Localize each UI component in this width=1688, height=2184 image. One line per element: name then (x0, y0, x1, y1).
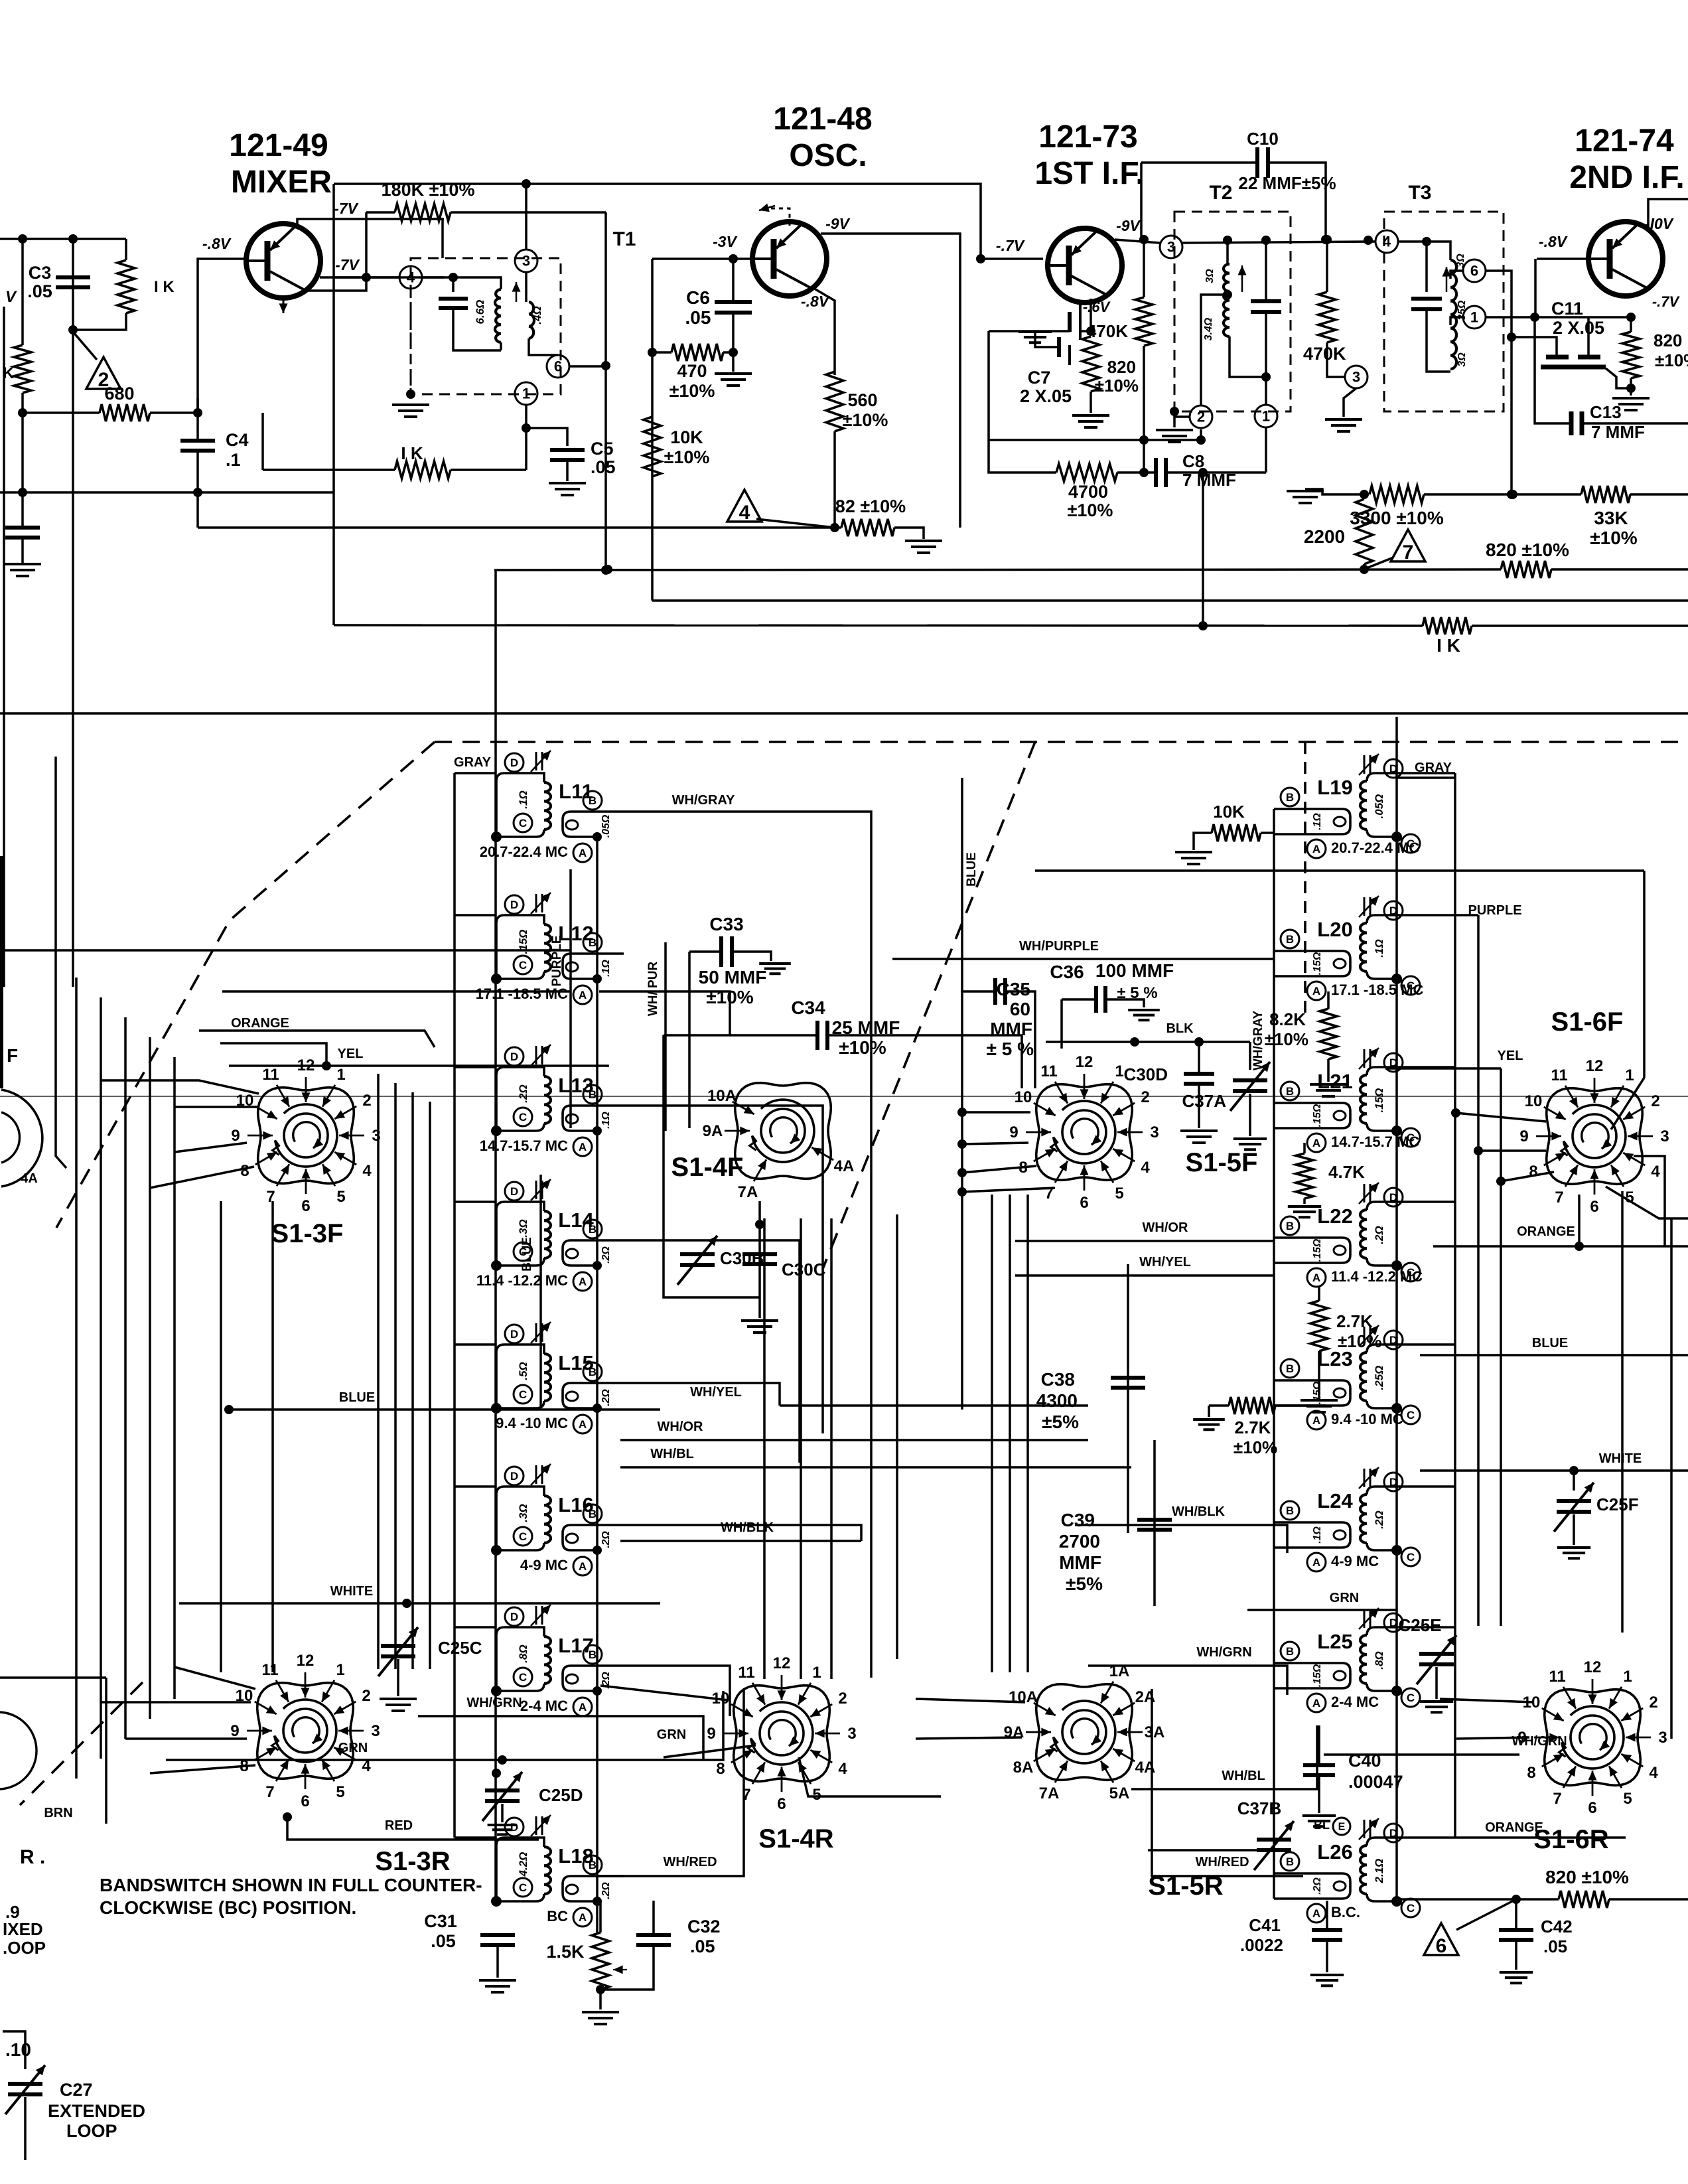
wire c37a gnd (1249, 1094, 1251, 1136)
svg-text:D: D (510, 1185, 518, 1198)
svg-text:WH/RED: WH/RED (663, 1855, 717, 1869)
adjuster L17 (531, 1605, 551, 1626)
label L13 prim ohms (517, 1084, 529, 1102)
terminal B L18 (583, 1856, 602, 1874)
label C10 (1247, 129, 1279, 149)
svg-text:6: 6 (301, 1197, 310, 1215)
capacitor C25F (1554, 1483, 1594, 1532)
junction L11 sec (593, 832, 602, 841)
label L12 freq (476, 985, 569, 1002)
junction (1261, 236, 1271, 245)
note bandswitch 2 (100, 1897, 356, 1918)
svg-text:7 MMF: 7 MMF (1591, 422, 1645, 442)
wire pin1 to 1K (525, 428, 527, 470)
label L14 freq (476, 1272, 568, 1289)
svg-text:WH/GRAY: WH/GRAY (672, 793, 735, 808)
ground C25D (488, 1825, 518, 1834)
svg-text:2: 2 (1197, 409, 1205, 425)
svg-text:S1-6R: S1-6R (1533, 1825, 1608, 1854)
label GRN s14r (657, 1727, 686, 1742)
label L11 freq (480, 843, 568, 860)
ground C41 (1310, 1975, 1344, 1986)
svg-text:7A: 7A (1039, 1784, 1060, 1802)
wire 180K right (451, 211, 606, 214)
resistor 2200 (1356, 499, 1373, 564)
arrow 1.5K tap (613, 1966, 627, 1974)
svg-text:2: 2 (362, 1092, 371, 1110)
capacitor C41 (1312, 1930, 1342, 1940)
junction L17 sec (593, 1686, 602, 1696)
label C3 value (27, 281, 52, 301)
junction (957, 1168, 967, 1177)
svg-text:±10%: ±10% (1095, 376, 1139, 396)
svg-text:WH/YEL: WH/YEL (690, 1385, 742, 1400)
coil L18 secondary (563, 1876, 624, 1901)
wire white left (179, 1602, 660, 1605)
label BLUE left rot (520, 1237, 534, 1272)
label WH/GRAY left (672, 793, 735, 808)
coil T1 secondary (529, 302, 534, 338)
wire C8 right (1166, 471, 1266, 474)
label C41 v (1240, 1935, 1283, 1955)
terminal A L26 (1307, 1904, 1326, 1923)
adjuster L20 (1359, 896, 1379, 917)
svg-text:D: D (510, 1470, 518, 1483)
terminal B L26 (1281, 1852, 1299, 1871)
svg-text:OSC.: OSC. (789, 138, 867, 173)
label EXTENDED (48, 2101, 145, 2121)
wire 1K bottom (73, 313, 126, 330)
ground 1.5K (582, 2012, 619, 2024)
wire rail y858 b (1551, 568, 1688, 571)
label C34 (791, 997, 825, 1018)
svg-text:ORANGE: ORANGE (1517, 1224, 1575, 1239)
label 3 ohm T3b (1456, 352, 1468, 367)
ground C30D (1180, 1131, 1218, 1143)
svg-text:9: 9 (230, 1722, 239, 1740)
capacitor C34 (817, 1021, 827, 1050)
coil L12 primary (496, 915, 551, 979)
svg-text:1: 1 (1262, 408, 1270, 425)
svg-text:.1Ω: .1Ω (1312, 813, 1323, 830)
label WH/RED right (1195, 1855, 1249, 1869)
svg-text:60: 60 (1010, 999, 1030, 1019)
wire 1stIF collector (1140, 163, 1143, 240)
terminal C L23 (1401, 1406, 1420, 1424)
terminal C L14 (514, 1242, 532, 1261)
wire orange left (199, 1031, 435, 1047)
junction (492, 1769, 501, 1778)
wire mixer emitter top (297, 219, 444, 227)
junction (1360, 490, 1369, 499)
label 82 (835, 496, 906, 516)
wire c25e gnd (1435, 1667, 1438, 1699)
svg-text:B: B (589, 1088, 597, 1101)
svg-text:2.7K: 2.7K (1235, 1418, 1271, 1437)
junction (1261, 372, 1271, 382)
svg-text:17.1 -18.5 MC: 17.1 -18.5 MC (1331, 982, 1424, 998)
terminal B L17 (583, 1645, 602, 1664)
svg-text:10K: 10K (1213, 802, 1245, 822)
rotary switch S1-6R (1517, 1658, 1667, 1817)
wire C7 left wire (989, 330, 1070, 332)
svg-text:B: B (1286, 1362, 1294, 1375)
wire s16f stub a (1456, 1113, 1546, 1122)
resistor 1K mixer input (117, 260, 135, 313)
label WH/OR right (1143, 1220, 1188, 1235)
label WHITE left (330, 1584, 373, 1599)
pin 3 T3 (1345, 366, 1368, 388)
svg-text:-7V: -7V (334, 200, 358, 217)
junction L18 (491, 1896, 502, 1907)
ground C40 (1302, 1816, 1336, 1826)
wire orange L26 (1455, 1836, 1626, 1839)
wire 470K2 top (1326, 240, 1328, 292)
wire x34 to 680 (21, 393, 24, 492)
wire agc y663 (989, 439, 1201, 441)
label L17 sec ohms (600, 1672, 612, 1689)
terminal A L24 (1307, 1553, 1326, 1571)
label C33 (709, 914, 743, 934)
svg-text:-.8V: -.8V (202, 235, 232, 252)
resistor 4.7K (1296, 1153, 1313, 1199)
wire osc base left (651, 259, 654, 601)
wire s16f arrow6 lead (1606, 1187, 1688, 1218)
svg-text:22 MMF±5%: 22 MMF±5% (1238, 173, 1336, 193)
wire 3300 gnd lead (1305, 489, 1364, 494)
svg-text:.1Ω: .1Ω (517, 790, 529, 808)
junction (1139, 235, 1149, 244)
wire c37b (1148, 1849, 1257, 1852)
svg-text:E: E (1338, 1822, 1346, 1833)
wire c41 gnd (1326, 1940, 1328, 1972)
label C31 value (431, 1931, 456, 1951)
svg-text:11: 11 (1551, 1066, 1567, 1084)
label C7 value (1020, 386, 1072, 406)
svg-text:WH/GRN: WH/GRN (1196, 1645, 1251, 1660)
coil L14 secondary (563, 1240, 624, 1266)
label 8.2K tol (1265, 1029, 1308, 1049)
label -.8V mixer (202, 235, 232, 252)
label C39 v3 (1059, 1552, 1101, 1573)
svg-text:±5%: ±5% (1066, 1573, 1103, 1594)
svg-text:12: 12 (297, 1652, 315, 1670)
svg-text:-.7V: -.7V (996, 237, 1025, 254)
resistor 470K 1stIF (1135, 297, 1153, 346)
svg-text:9: 9 (231, 1127, 240, 1145)
svg-text:.35Ω: .35Ω (1456, 300, 1468, 323)
wire s16f arrow7 lead (1578, 1195, 1581, 1246)
wire bc label (599, 1901, 602, 1932)
label 470K inter (1303, 344, 1346, 364)
wire T1 coil top (453, 277, 501, 289)
note triangle 6 (1424, 1923, 1458, 1957)
svg-text:2ND I.F.: 2ND I.F. (1569, 160, 1684, 195)
junction L16 sec (593, 1546, 602, 1555)
svg-text:D: D (510, 757, 518, 769)
svg-text:GRN: GRN (657, 1727, 686, 1742)
wire s14f feed (599, 991, 730, 1035)
coil L15 secondary (563, 1383, 624, 1408)
terminal A L15 (573, 1415, 592, 1433)
svg-text:1: 1 (1115, 1062, 1123, 1080)
svg-text:B: B (1286, 1220, 1294, 1232)
svg-text:9: 9 (1009, 1124, 1018, 1141)
wire T1 sec bot (529, 338, 558, 355)
svg-text:7: 7 (1553, 1790, 1561, 1808)
terminal C L16 (514, 1527, 532, 1546)
label 1K (154, 278, 175, 296)
svg-text:C25E: C25E (1398, 1615, 1441, 1635)
junction (1198, 621, 1208, 630)
svg-text:PURPLE: PURPLE (550, 935, 564, 986)
capacitor C25E (1417, 1635, 1456, 1684)
dashed stub bottom left (20, 1682, 143, 1805)
capacitor C3 (56, 277, 90, 287)
label L23 freq (1331, 1411, 1403, 1427)
capacitor C7 2x.05 (1059, 304, 1080, 365)
wire c27 down (24, 2097, 27, 2160)
ground arrow under mixer (279, 300, 288, 313)
junction (1364, 236, 1373, 245)
wire s14 bundle 2 (830, 1218, 833, 1679)
wire C13 right (1583, 422, 1688, 425)
wire pin1 rail y478 (1486, 316, 1631, 319)
label L21 prim ohms (1373, 1088, 1385, 1113)
wire 470 right (723, 351, 733, 354)
junction (1569, 1466, 1579, 1475)
wire C5 gnd (566, 460, 569, 481)
junction (1130, 1037, 1139, 1047)
wire 1.5K gnd (599, 1990, 602, 2009)
label 121-74 (1575, 123, 1674, 159)
wire 820 2ndIF bot (1630, 378, 1632, 396)
label OSC. (789, 138, 867, 173)
label 33K (1594, 508, 1628, 528)
coil L23 secondary (1274, 1380, 1350, 1406)
svg-text:10: 10 (1525, 1092, 1543, 1110)
svg-text:3: 3 (1352, 369, 1360, 386)
svg-text:B: B (589, 1648, 597, 1661)
label .10 (5, 2039, 31, 2060)
terminal B L12 (583, 933, 602, 952)
capacitor C11 2x.05 (1541, 357, 1606, 367)
junction (406, 390, 415, 399)
wire 8.2K top (1327, 991, 1330, 1009)
svg-text:.2Ω: .2Ω (1373, 1226, 1385, 1244)
wire D stub L15 (455, 1343, 496, 1346)
wire x84 vertical (56, 757, 66, 1168)
terminal A L11 (573, 843, 592, 862)
svg-text:C33: C33 (709, 914, 743, 934)
label L20 sec ohms (1312, 952, 1323, 975)
svg-text:9: 9 (1519, 1128, 1528, 1145)
wire osc collector down (833, 372, 836, 375)
wire s15 bundle 2 (1026, 1195, 1029, 1672)
transistor 2nd IF 121-74 (1588, 222, 1663, 296)
wire blue left (229, 1408, 660, 1411)
svg-text:12: 12 (1586, 1057, 1604, 1075)
label PURPLE left (550, 935, 564, 986)
junction (957, 1139, 967, 1149)
label S1-3F (271, 1219, 344, 1248)
label T1 (612, 228, 636, 250)
wire D stub L18 (455, 1836, 496, 1839)
svg-text:T1: T1 (612, 228, 636, 250)
wire rail y858 (494, 569, 1501, 570)
terminal A L12 (573, 985, 592, 1004)
terminal C L13 (514, 1108, 532, 1126)
wire T2 coil top (1226, 240, 1229, 264)
svg-text:EXTENDED: EXTENDED (48, 2101, 145, 2121)
label C36 (1050, 962, 1084, 982)
junction (18, 408, 27, 417)
svg-text:A: A (579, 847, 587, 859)
adjuster L12 (531, 893, 551, 914)
junction (830, 523, 839, 532)
label C35 v1 (1010, 999, 1030, 1019)
wire wh/purple (892, 958, 1274, 960)
svg-text:121-74: 121-74 (1575, 123, 1674, 159)
wire L16 B connector (624, 1525, 861, 1541)
label LOOP (66, 2121, 117, 2141)
label C41 (1249, 1915, 1281, 1935)
svg-text:.8Ω: .8Ω (1373, 1651, 1385, 1669)
svg-text:3: 3 (1660, 1128, 1669, 1145)
coil L22 secondary (1274, 1238, 1350, 1263)
svg-text:BANDSWITCH SHOWN IN FULL COUNT: BANDSWITCH SHOWN IN FULL COUNTER- (100, 1875, 482, 1895)
terminal C L24 (1401, 1548, 1420, 1566)
svg-text:C41: C41 (1249, 1915, 1281, 1935)
svg-text:A: A (1312, 985, 1320, 997)
svg-text:LOOP: LOOP (66, 2121, 117, 2141)
svg-text:±5%: ±5% (1042, 1412, 1079, 1432)
junction (193, 408, 202, 417)
capacitor C25C (378, 1627, 418, 1676)
svg-text:C39: C39 (1061, 1510, 1095, 1530)
wire D stub L17 (455, 1626, 496, 1629)
wire y1312 feed (1035, 869, 1644, 872)
terminal C L21 (1401, 1128, 1420, 1147)
wire grn right (1247, 1609, 1397, 1611)
wire T1 cap bottom (453, 308, 501, 350)
wire s15f stub10 (962, 1111, 1030, 1114)
capacitor C32 (636, 1935, 671, 1945)
wire purple vertical (569, 869, 572, 1128)
svg-text:±10%: ±10% (843, 410, 888, 430)
svg-text:1: 1 (1470, 309, 1478, 326)
junction L23 (1391, 1403, 1402, 1414)
pin 1 T3 (1463, 306, 1486, 328)
svg-text:8A: 8A (1013, 1759, 1034, 1777)
svg-text:9A: 9A (703, 1122, 723, 1140)
wire s15f stub8 (962, 1166, 1036, 1173)
label WH/PUR (646, 962, 660, 1017)
svg-text:10: 10 (1015, 1088, 1032, 1106)
label L22 sec ohms (1312, 1238, 1323, 1262)
junction (1626, 313, 1636, 322)
wire 82 right (894, 528, 924, 539)
label C30C (782, 1260, 826, 1279)
pin 6 T3 (1463, 259, 1486, 282)
svg-text:4: 4 (1141, 1159, 1150, 1177)
svg-text:C42: C42 (1541, 1917, 1573, 1936)
svg-text:5: 5 (812, 1786, 821, 1804)
svg-text:WH/BL: WH/BL (650, 1447, 694, 1461)
svg-text:.2Ω: .2Ω (600, 1531, 612, 1548)
junction L12 sec (593, 974, 602, 983)
wire s14r stub a (600, 1686, 729, 1700)
label L25 freq (1331, 1694, 1379, 1710)
resistor 560 (826, 372, 843, 431)
wire c36 right (1105, 999, 1144, 1007)
transformer T2 box (1174, 212, 1291, 411)
label L11 (559, 780, 593, 803)
wire c32 bot (600, 1945, 654, 1990)
label L13 sec ohms (600, 1112, 612, 1129)
svg-text:C25C: C25C (438, 1638, 482, 1658)
svg-text:V: V (5, 288, 17, 306)
capacitor C37B (1254, 1821, 1294, 1870)
arrow T3 (1442, 267, 1451, 292)
svg-text:121-73: 121-73 (1038, 119, 1137, 155)
dashed bandswitch diagonal left (56, 742, 435, 1228)
wire 470K2 bot (1327, 342, 1344, 377)
junction (193, 488, 202, 497)
svg-text:.1Ω: .1Ω (1373, 939, 1385, 957)
capacitor T1 internal (439, 299, 468, 308)
rotary switch S1-5F (1009, 1053, 1159, 1212)
label C35 v3 (987, 1039, 1034, 1059)
capacitor C36 (1096, 986, 1105, 1013)
label C36 tol (1117, 984, 1157, 1002)
coil L11 primary (496, 773, 551, 837)
label RED left (385, 1818, 413, 1833)
wire 1K left (263, 469, 395, 471)
wire T1 sec top (525, 273, 527, 302)
junction (1507, 490, 1516, 499)
wire D stub L11 (455, 772, 496, 774)
wire rail y943 b (1472, 624, 1688, 627)
wire T1 pin4 inside (422, 277, 453, 292)
svg-text:C34: C34 (791, 997, 825, 1018)
resistor 2.7K L23 (1229, 1397, 1275, 1414)
capacitor C38 (1111, 1378, 1145, 1388)
label L16 sec ohms (600, 1531, 612, 1548)
wire c33 right (732, 952, 771, 961)
wire rail y905 (652, 599, 1688, 602)
svg-text:A: A (579, 1560, 587, 1573)
wire wh/blk left (620, 1540, 861, 1542)
dashed vertical right bank (1304, 742, 1306, 1015)
ground C25F (1557, 1548, 1590, 1558)
label WH/GRN right2 (1512, 1734, 1567, 1749)
svg-text:6: 6 (1588, 1799, 1596, 1817)
capacitor C30C (742, 1254, 777, 1264)
svg-text:.05: .05 (690, 1936, 715, 1956)
svg-text:1: 1 (812, 1664, 821, 1682)
wire collector right (320, 276, 444, 279)
transformer T3 box (1384, 212, 1504, 411)
junction (1223, 290, 1232, 299)
label T2 (1209, 182, 1232, 204)
wire blue right vert (961, 778, 963, 1410)
label 10K tol (664, 447, 710, 467)
svg-text:C3: C3 (29, 263, 52, 283)
svg-text:3: 3 (1658, 1729, 1667, 1747)
capacitor T2 internal (1251, 301, 1281, 312)
wire c25c gnd (397, 1659, 399, 1696)
